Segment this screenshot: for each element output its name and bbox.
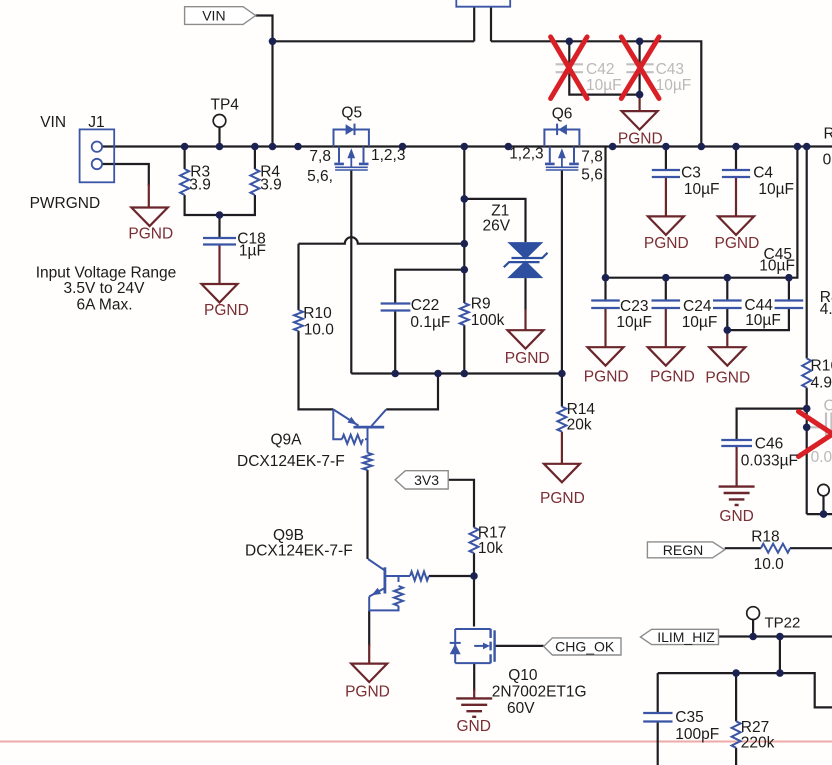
wire R4 top stub: [254, 147, 256, 170]
svg-text:60V: 60V: [507, 700, 535, 717]
no-stuff X over C42: [551, 37, 588, 99]
wire R10 top with hop over Q5 gate: [299, 237, 465, 243]
node C22 tee: [461, 266, 469, 274]
svg-text:PGND: PGND: [715, 235, 760, 252]
ground PGND under C43: [622, 111, 658, 130]
svg-text:Q10: Q10: [508, 667, 538, 684]
wire C35 bottom to edge: [657, 722, 659, 765]
wire R27 bottom to edge: [735, 748, 737, 765]
no-stuff X right edge: [799, 412, 832, 457]
wire Q6 gate drop: [561, 170, 563, 374]
wire maroon C3 PGND feed: [665, 177, 667, 216]
capacitor C46: [721, 440, 752, 446]
svg-text:PGND: PGND: [644, 235, 689, 252]
svg-text:Input Voltage Range: Input Voltage Range: [36, 265, 176, 282]
svg-text:220k: 220k: [741, 735, 775, 752]
svg-text:7,8: 7,8: [309, 148, 331, 165]
wire second capacitor rail: [606, 147, 798, 278]
net flag REGN: [647, 542, 724, 558]
ground PGND under Z1: [508, 330, 544, 349]
ground PGND under J1: [131, 208, 167, 227]
svg-text:PGND: PGND: [505, 350, 550, 367]
capacitor C45: [775, 301, 804, 309]
node rail D: [609, 143, 617, 151]
svg-text:1,2,3: 1,2,3: [509, 146, 543, 163]
wire C18 top: [218, 215, 220, 238]
ground PGND under C23: [588, 347, 624, 366]
svg-text:R9: R9: [471, 296, 491, 313]
wire R3 R4 bottom bus: [185, 195, 255, 215]
svg-text:R17: R17: [478, 525, 506, 542]
wire C23 top stub: [604, 278, 606, 300]
svg-text:R14: R14: [567, 401, 596, 418]
wire maroon C4 PGND feed: [735, 177, 737, 216]
svg-text:GND: GND: [457, 718, 491, 735]
node rail R3: [181, 143, 189, 151]
capacitor crossed out right edge: [807, 413, 832, 438]
node ILIM TP22: [749, 633, 757, 641]
svg-text:VIN: VIN: [40, 114, 66, 131]
testpoint TP4: [213, 115, 226, 128]
capacitor C42 crossed out: [556, 64, 583, 72]
wire C43 bottom stub: [638, 73, 640, 95]
capacitor C4: [722, 170, 750, 177]
resistor R3: [180, 169, 189, 195]
svg-text:1,2,3: 1,2,3: [371, 147, 405, 164]
svg-text:PGND: PGND: [204, 302, 249, 319]
wire VIN horizontal top to connector pin1: [273, 40, 475, 42]
svg-text:PGND: PGND: [650, 369, 695, 386]
wire C3 column to second rail: [604, 147, 606, 278]
svg-text:R2: R2: [824, 125, 832, 142]
wire C22 bottom: [394, 311, 396, 374]
svg-text:100pF: 100pF: [675, 726, 719, 743]
wire ILIM_HIZ net: [719, 635, 832, 637]
resistor R4: [250, 169, 259, 195]
wire C46 tee: [737, 409, 807, 440]
svg-text:DCX124EK-7-F: DCX124EK-7-F: [245, 543, 353, 560]
wire maroon C23 PGND feed: [604, 309, 606, 348]
resistor R10: [294, 310, 303, 331]
node second rail C44: [724, 274, 732, 282]
resistor R16 right edge: [802, 358, 811, 387]
svg-text:R16: R16: [811, 358, 832, 375]
wire maroon Z1 PGND feed: [524, 309, 526, 330]
wire maroon Q10 GND feed: [473, 689, 475, 698]
svg-text:3.5V to 24V: 3.5V to 24V: [63, 280, 145, 297]
svg-text:R27: R27: [741, 719, 769, 736]
svg-text:4.7: 4.7: [820, 301, 832, 318]
resistor R9: [460, 303, 469, 325]
wire junction to Q10 drain: [473, 576, 475, 627]
wire C24 top stub: [665, 278, 667, 300]
component box partial top edge: [456, 0, 510, 7]
node rail second bank: [794, 143, 802, 151]
node second rail C45: [785, 274, 793, 282]
node second rail C24: [662, 274, 670, 282]
svg-text:C4: C4: [753, 165, 773, 182]
wire R27 top: [735, 673, 737, 721]
svg-text:C43: C43: [656, 61, 684, 78]
wire top net pin2 to C42 C43 PGND corner: [491, 41, 701, 146]
wire Q9B base to junction: [429, 575, 474, 577]
svg-text:26V: 26V: [483, 218, 511, 235]
wire maroon C18 PGND feed: [218, 245, 220, 285]
svg-text:100k: 100k: [471, 312, 505, 329]
svg-text:0.0: 0.0: [823, 152, 832, 169]
svg-text:TP4: TP4: [211, 97, 240, 114]
wire Z1 bottom: [524, 278, 526, 310]
wire C42 top stub: [568, 41, 570, 64]
wire C22 tee: [395, 270, 464, 303]
svg-text:10µF: 10µF: [682, 314, 718, 331]
resistor R27: [732, 721, 741, 748]
node gate rail Q9A: [434, 370, 442, 378]
svg-text:10µF: 10µF: [586, 77, 622, 94]
transistor Q9B: [368, 559, 429, 610]
capacitor C22: [381, 304, 411, 311]
node VIN corner: [269, 38, 277, 46]
ground GND under Q10: [456, 698, 492, 716]
svg-text:C35: C35: [675, 709, 703, 726]
node C43 top: [636, 38, 644, 46]
wire C3 top stub: [665, 147, 667, 170]
svg-text:CHG_OK: CHG_OK: [555, 638, 615, 654]
wire R3 top stub: [184, 147, 186, 170]
svg-text:C42: C42: [586, 61, 614, 78]
node rail C42 branch: [698, 143, 706, 151]
wire Q9A base column: [366, 470, 368, 559]
wire Q10 gate to CHG_OK: [494, 645, 543, 647]
node rail C4: [732, 143, 740, 151]
svg-text:C23: C23: [620, 298, 648, 315]
transistor Q6: [544, 124, 579, 170]
node lower net R27: [732, 669, 740, 677]
wire gate rail: [351, 372, 562, 374]
node rail A: [294, 143, 302, 151]
node rail R9 column: [461, 143, 469, 151]
ground PGND under C18: [202, 284, 238, 303]
svg-text:Q5: Q5: [341, 105, 362, 122]
wire R17 bottom: [473, 553, 475, 576]
wire maroon J1 PGND feed: [148, 184, 150, 207]
svg-text:PGND: PGND: [618, 131, 663, 148]
svg-text:Q9B: Q9B: [273, 527, 304, 544]
svg-text:20k: 20k: [567, 417, 592, 434]
capacitor C35: [643, 713, 672, 722]
svg-text:10k: 10k: [478, 540, 503, 557]
wire R10 column upper: [297, 244, 299, 310]
svg-text:VIN: VIN: [202, 8, 225, 24]
net flag 3V3: [395, 471, 448, 489]
node Z1 tee: [461, 195, 469, 203]
wire R9 bottom to gate rail: [463, 325, 465, 373]
node R10 tee: [461, 240, 469, 248]
wire 3V3 to R17: [448, 480, 474, 528]
wire R16 bottom column: [806, 388, 808, 514]
wire R10 bottom to Q9A emitter: [299, 331, 334, 409]
ground GND under C46: [719, 487, 755, 505]
wire maroon R14 PGND feed: [561, 432, 563, 464]
resistor R14: [557, 407, 566, 432]
svg-text:C3: C3: [681, 165, 701, 182]
svg-text:10.0: 10.0: [304, 322, 335, 339]
wire main input rail: [102, 145, 832, 147]
testpoint right edge: [818, 484, 829, 495]
wire TP22 stub: [752, 620, 754, 637]
wire J1 pin2 to PGND corner: [102, 164, 149, 186]
svg-text:10µF: 10µF: [616, 314, 652, 331]
wire VIN flag tip to corner: [256, 16, 273, 42]
svg-text:0.033µF: 0.033µF: [741, 453, 798, 470]
svg-text:PGND: PGND: [128, 226, 173, 243]
ground PGND under C44: [709, 347, 745, 366]
node C43 bottom: [636, 91, 644, 99]
svg-text:5,6,: 5,6,: [307, 168, 333, 185]
svg-text:3.9: 3.9: [260, 177, 282, 194]
svg-text:J1: J1: [88, 114, 104, 131]
wire R18 right to edge: [790, 547, 832, 549]
wire maroon C24 PGND feed: [665, 309, 667, 348]
svg-text:R10: R10: [303, 305, 332, 322]
wire maroon Q9B PGND feed: [368, 644, 370, 664]
no-stuff X over C43: [621, 37, 659, 99]
node gate rail R14: [558, 370, 566, 378]
svg-text:PGND: PGND: [540, 490, 585, 507]
ground PGND under C24: [648, 347, 684, 366]
wire C45 top stub: [788, 278, 790, 300]
svg-text:10.0: 10.0: [754, 556, 785, 573]
wire C43 top stub: [638, 41, 640, 64]
wire R9 Z1 column from rail: [463, 147, 465, 304]
testpoint TP22: [747, 607, 760, 620]
svg-text:GND: GND: [719, 508, 753, 525]
node rail R4: [251, 143, 259, 151]
net flag CHG_OK: [544, 638, 621, 655]
wire maroon C46 GND feed: [735, 446, 737, 487]
net flag VIN: [185, 7, 256, 25]
wire Q9B emitter to PGND upper: [368, 610, 370, 646]
wire maroon C44 PGND feed: [726, 330, 728, 347]
wire Q5 gate drop: [350, 170, 352, 374]
svg-text:PGND: PGND: [705, 370, 750, 387]
wire Q9A collector to gate rail: [386, 374, 438, 410]
capacitor C24: [652, 301, 681, 309]
net flag ILIM_HIZ: [640, 629, 718, 644]
svg-text:DCX124EK-7-F: DCX124EK-7-F: [237, 453, 345, 470]
wire Q10 source to GND: [473, 663, 475, 691]
node rail C3: [662, 143, 670, 151]
ground PGND under C3: [648, 216, 684, 235]
svg-text:1µF: 1µF: [239, 243, 266, 260]
node gate rail R9: [461, 370, 469, 378]
node R17 bottom: [470, 572, 478, 580]
svg-text:0.01: 0.01: [811, 449, 832, 466]
node second rail C23: [602, 274, 610, 282]
resistor R17: [470, 528, 479, 554]
wire C44 top stub: [726, 278, 728, 300]
svg-text:PGND: PGND: [584, 369, 629, 386]
capacitor C23: [591, 301, 620, 309]
svg-text:10µF: 10µF: [745, 312, 781, 329]
wire lower RC net: [658, 673, 832, 707]
ground PGND under Q9B: [351, 664, 387, 683]
svg-text:0.1µF: 0.1µF: [410, 314, 450, 331]
svg-text:4.99: 4.99: [811, 374, 832, 391]
capacitor C3: [652, 170, 680, 177]
capacitor C18: [203, 238, 236, 245]
node R16 bottom C46: [803, 405, 811, 413]
svg-text:Q6: Q6: [552, 106, 573, 123]
connector J1: [80, 129, 115, 182]
wire VIN drop to main rail: [271, 41, 273, 146]
node gate rail C22: [391, 370, 399, 378]
svg-text:7,8: 7,8: [581, 149, 603, 166]
wire connector pin2 drop: [490, 7, 492, 42]
svg-text:10µF: 10µF: [758, 181, 794, 198]
node ILIM drop: [776, 633, 784, 641]
node rail R16: [803, 143, 811, 151]
wire ILIM drop: [779, 637, 781, 674]
svg-text:ILIM_HIZ: ILIM_HIZ: [657, 629, 715, 645]
svg-text:5,6,: 5,6,: [581, 167, 607, 184]
wire R14 top: [561, 374, 563, 407]
wire C44 C45 bottom join: [727, 309, 789, 331]
transistor Q5: [334, 124, 369, 170]
wire connector pin1 drop: [473, 7, 475, 42]
svg-text:PGND: PGND: [345, 684, 390, 701]
node R16 bottom crossed cap: [803, 424, 811, 432]
wire Z1 tee: [464, 199, 525, 242]
ground PGND under C4: [718, 216, 754, 235]
node lower net drop: [776, 669, 784, 677]
svg-text:3V3: 3V3: [414, 472, 439, 488]
node C42 top: [566, 38, 574, 46]
wire REGN to R18 left: [725, 547, 761, 549]
svg-text:3.9: 3.9: [189, 177, 211, 194]
svg-text:10µF: 10µF: [759, 258, 795, 275]
wire C42 bottom: [569, 73, 639, 95]
resistor R18 horizontal: [761, 544, 790, 553]
svg-text:REGN: REGN: [663, 542, 703, 558]
TVS diode Z1: [504, 242, 548, 278]
svg-text:TP22: TP22: [765, 615, 801, 632]
svg-text:10µF: 10µF: [656, 77, 692, 94]
wire C4 top stub: [735, 147, 737, 170]
node right TP: [820, 510, 828, 518]
svg-text:C22: C22: [411, 297, 439, 314]
wire TP4 stub: [218, 127, 220, 146]
wire R16 column from rail: [806, 147, 808, 359]
svg-text:PWRGND: PWRGND: [30, 195, 101, 212]
wire maroon C43 PGND feed: [638, 95, 640, 112]
node rail C: [505, 143, 513, 151]
svg-text:6A Max.: 6A Max.: [77, 297, 133, 314]
wire right TP stub: [822, 496, 824, 514]
svg-text:10µF: 10µF: [684, 181, 720, 198]
svg-text:C46: C46: [755, 436, 783, 453]
transistor Q9A: [333, 409, 386, 470]
wire right TP corner: [807, 513, 832, 515]
svg-text:C4: C4: [824, 398, 832, 415]
node rail VIN: [269, 143, 277, 151]
node rail B: [399, 143, 407, 151]
node R3 R4 bottom: [216, 211, 224, 219]
node rail TP4: [216, 143, 224, 151]
svg-text:2N7002ET1G: 2N7002ET1G: [492, 684, 587, 701]
ground PGND under R14: [544, 464, 580, 483]
svg-text:R18: R18: [751, 529, 779, 546]
capacitor C44: [713, 301, 742, 309]
node C44 bottom: [724, 326, 732, 334]
transistor Q10: [450, 629, 495, 664]
border line bottom: [0, 741, 832, 743]
svg-text:C24: C24: [683, 298, 712, 315]
capacitor C43 crossed out: [626, 64, 653, 72]
svg-text:Q9A: Q9A: [271, 432, 303, 449]
wire C35 top: [657, 673, 659, 712]
